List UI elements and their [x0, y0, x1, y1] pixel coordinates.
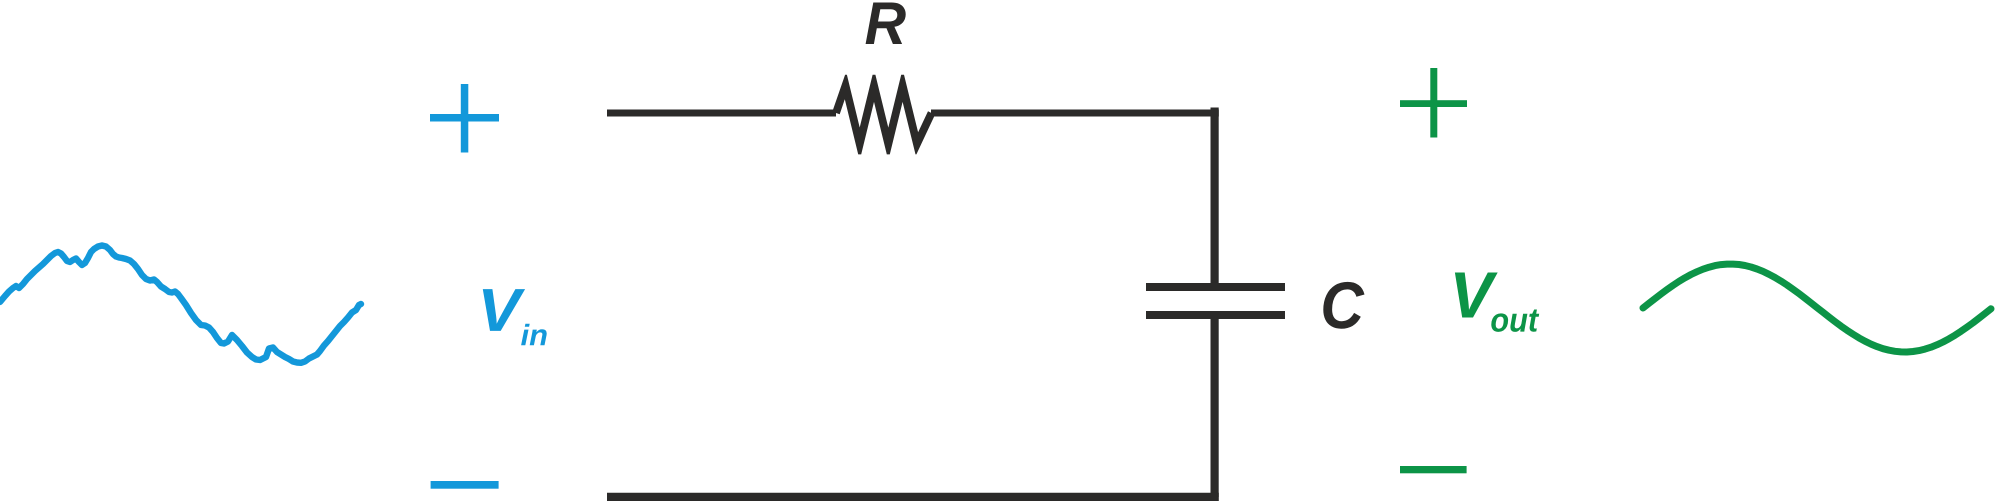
Vin label: [483, 289, 547, 345]
Vin - polarity symbol (blue minus): [431, 481, 499, 489]
label C: [1323, 282, 1364, 329]
input waveform: noisy signal (blue): [0, 246, 361, 363]
Vout label: [1455, 273, 1539, 332]
Vin + polarity symbol (blue plus): [430, 84, 499, 153]
resistor R (zigzag): [832, 75, 935, 155]
wire W3: vertical down to capacitor top plate: [1210, 108, 1218, 284]
wire W4: vertical from capacitor bottom plate to bottom wire: [1210, 319, 1218, 497]
capacitor C plates: [1146, 287, 1285, 315]
Vout - polarity symbol (green minus): [1400, 466, 1467, 473]
wire W1: top-left horizontal (Vin+ to resistor): [607, 110, 836, 117]
label R: [866, 3, 906, 45]
wire W5: bottom horizontal return wire: [607, 493, 1219, 501]
wire W2: top-right horizontal (resistor to node): [931, 110, 1219, 117]
Vout + polarity symbol (green plus): [1400, 68, 1467, 138]
output waveform: filtered sine (green): [1643, 264, 1991, 352]
